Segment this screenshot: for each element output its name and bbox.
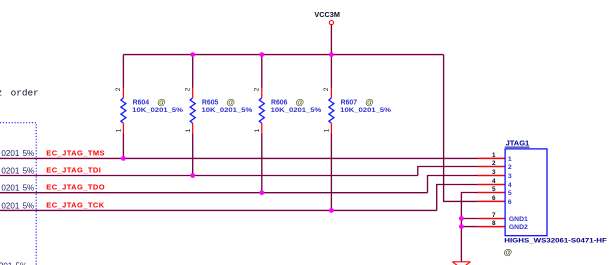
svg-text:0201: 0201	[0, 262, 13, 265]
svg-text:2: 2	[185, 87, 192, 91]
svg-text:6: 6	[492, 195, 496, 202]
svg-text:5: 5	[508, 190, 512, 197]
svg-text:4: 4	[492, 178, 496, 185]
svg-text:5: 5	[492, 186, 496, 193]
svg-text:VCC3M: VCC3M	[314, 12, 340, 19]
wire net EC_JTAG_TDI	[0, 175, 418, 177]
svg-text:order: order	[11, 88, 39, 99]
svg-text:2: 2	[323, 87, 330, 91]
wire R607 to net	[330, 133, 332, 210]
svg-text:1: 1	[116, 128, 123, 132]
junction R605/EC_JTAG_TDI	[190, 173, 195, 178]
svg-text:@: @	[365, 97, 373, 107]
svg-text:10K_0201_5%: 10K_0201_5%	[132, 107, 183, 114]
wire net EC_JTAG_TDO	[0, 192, 428, 194]
wire rail to R605	[192, 55, 194, 88]
svg-text:3: 3	[508, 173, 512, 180]
svg-text:EC_JTAG_TDI: EC_JTAG_TDI	[46, 166, 101, 175]
junction rail/R605	[190, 52, 195, 57]
svg-text:R607: R607	[341, 99, 358, 106]
wire power rail	[123, 54, 443, 56]
svg-text:0201: 0201	[1, 166, 19, 175]
svg-text:5%: 5%	[16, 262, 28, 265]
svg-text:@: @	[157, 97, 165, 107]
svg-text:@: @	[504, 247, 512, 257]
junction R607/EC_JTAG_TCK	[329, 208, 334, 213]
svg-text:EC_JTAG_TDO: EC_JTAG_TDO	[46, 183, 105, 192]
junction gnd/pin7	[459, 216, 464, 221]
svg-text:EC_JTAG_TCK: EC_JTAG_TCK	[46, 200, 104, 209]
wire net EC_JTAG_TCK	[0, 209, 437, 211]
wire TDO jog to pin 3	[428, 176, 506, 193]
resistor R605 10K_0201_5%	[185, 87, 253, 133]
svg-text:z: z	[0, 88, 2, 99]
svg-text:0201: 0201	[1, 184, 19, 193]
svg-text:6: 6	[508, 199, 512, 206]
svg-text:5%: 5%	[23, 166, 35, 175]
wire rail to R604	[122, 55, 124, 88]
svg-text:1: 1	[185, 128, 192, 132]
ground	[452, 262, 470, 265]
resistor R606 10K_0201_5%	[254, 87, 322, 133]
svg-text:GND2: GND2	[509, 224, 528, 231]
svg-text:R605: R605	[202, 99, 219, 106]
svg-text:4: 4	[508, 182, 512, 189]
connector JTAG1	[505, 141, 547, 236]
wire TDI jog to pin 2	[418, 167, 505, 176]
dotted selection box (left, clipped)	[0, 123, 36, 265]
svg-text:5%: 5%	[23, 149, 35, 158]
svg-text:5%: 5%	[23, 201, 35, 210]
svg-text:HIGHS_WS32061-S0471-HF: HIGHS_WS32061-S0471-HF	[504, 237, 607, 244]
wire R604 to net	[122, 133, 124, 158]
svg-text:10K_0201_5%: 10K_0201_5%	[202, 107, 253, 114]
svg-text:7: 7	[492, 212, 496, 219]
svg-text:5%: 5%	[23, 184, 35, 193]
pin stubs (red) of JTAG1	[478, 157, 505, 159]
svg-text:3: 3	[492, 169, 496, 176]
svg-text:@: @	[227, 97, 235, 107]
svg-text:1: 1	[324, 128, 331, 132]
wire net EC_JTAG_TMS	[0, 157, 505, 159]
resistor R607 10K_0201_5%	[323, 87, 391, 133]
svg-text:0201: 0201	[1, 149, 19, 158]
svg-text:@: @	[296, 97, 304, 107]
wire R606 to net	[261, 133, 263, 192]
svg-text:8: 8	[492, 220, 496, 227]
svg-text:GND1: GND1	[509, 216, 528, 223]
svg-text:1: 1	[508, 156, 512, 163]
svg-text:2: 2	[115, 87, 122, 91]
junction R604/EC_JTAG_TMS	[121, 156, 126, 161]
svg-text:EC_JTAG_TMS: EC_JTAG_TMS	[46, 148, 105, 157]
svg-text:10K_0201_5%: 10K_0201_5%	[271, 107, 322, 114]
wire VCC3M to rail	[330, 25, 332, 55]
svg-text:10K_0201_5%: 10K_0201_5%	[340, 107, 391, 114]
wire pin 8 stub	[461, 226, 505, 228]
wire pin 7 stub	[461, 218, 505, 220]
svg-text:1: 1	[254, 128, 261, 132]
wire R605 to net	[192, 133, 194, 175]
pin numbers 1-8	[492, 152, 496, 227]
junction rail/VCC3M/R607	[329, 52, 334, 57]
wire rail to R606	[261, 55, 263, 88]
svg-text:2: 2	[508, 164, 512, 171]
wire pin 5 to ground column	[461, 193, 505, 262]
resistor R604 10K_0201_5%	[115, 87, 183, 133]
svg-text:R604: R604	[133, 99, 150, 106]
wire rail drop to pin 6 (VCC3M to JTAG1 pin6)	[444, 55, 506, 202]
svg-text:0201: 0201	[1, 201, 19, 210]
junction rail/R606	[259, 52, 264, 57]
pin names 1-6, GND1, GND2	[508, 156, 528, 231]
junction R606/EC_JTAG_TDO	[259, 190, 264, 195]
svg-text:R606: R606	[271, 99, 288, 106]
svg-text:1: 1	[492, 152, 496, 159]
svg-text:2: 2	[254, 87, 261, 91]
svg-text:2: 2	[492, 160, 496, 167]
junction gnd/pin8	[459, 224, 464, 229]
wire rail to R607	[330, 55, 332, 88]
wire TCK jog to pin 4	[437, 185, 505, 211]
